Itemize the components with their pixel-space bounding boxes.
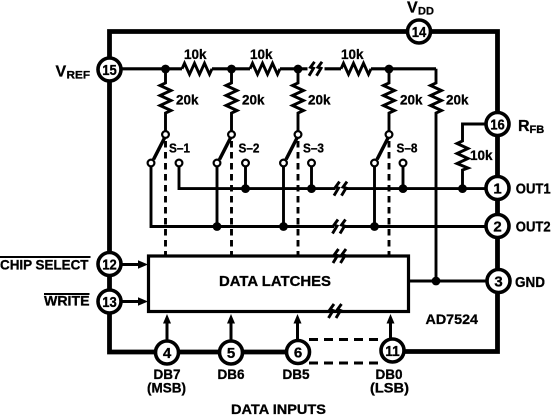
svg-text:5: 5 [227, 345, 235, 362]
switch S-1 [148, 131, 183, 166]
resistor R2 10k (between S-2 and S-3 nodes) [250, 63, 280, 74]
svg-text:10k: 10k [250, 47, 273, 62]
pin 12 (chip select) [98, 253, 121, 276]
pin 16 (RFB) [486, 113, 509, 136]
svg-text:13: 13 [102, 294, 117, 311]
pin 14 (VDD) [408, 20, 431, 43]
node junction dot S-8/OUT1 [399, 184, 408, 193]
svg-text:2: 2 [493, 218, 501, 235]
pin 15 (VREF) [98, 58, 121, 81]
dashed control line S-3 [297, 141, 300, 255]
node junction dot S-8 branch on VREF rail [385, 65, 394, 74]
svg-text:20k: 20k [308, 93, 331, 108]
wire DB7 arrow into latches [166, 322, 169, 340]
wire S-2 contact to OUT2 [216, 167, 219, 227]
break mark on VREF rail [309, 62, 322, 76]
svg-text:S–3: S–3 [303, 141, 324, 156]
svg-text:4: 4 [163, 345, 172, 362]
wire chip outline loop (left, top, right rails and bottom rail ends) [110, 32, 498, 353]
label VREF [56, 64, 91, 82]
svg-text:DATA INPUTS: DATA INPUTS [231, 401, 326, 417]
svg-text:1: 1 [493, 180, 501, 197]
svg-text:DB6: DB6 [217, 367, 244, 382]
wire OUT1 bus [179, 167, 498, 189]
svg-text:S–2: S–2 [239, 141, 260, 156]
pin 1 (OUT1) [486, 177, 509, 200]
resistor 20k branch S-2 [226, 69, 237, 131]
dashed control line S-2 [230, 141, 233, 255]
svg-text:(MSB): (MSB) [147, 381, 186, 396]
svg-text:AD7524: AD7524 [426, 311, 479, 327]
resistor 20k branch S-3 [293, 69, 304, 131]
break mark on OUT1 bus [334, 182, 347, 196]
svg-text:16: 16 [490, 116, 505, 133]
label RFB [518, 118, 544, 136]
node junction dot S-8/OUT2 [370, 222, 379, 231]
wire DB0 arrow into latches [389, 322, 392, 338]
svg-text:DB5: DB5 [282, 367, 309, 382]
node junction dot S-3/OUT1 [307, 184, 316, 193]
wire DB5 arrow into latches [296, 322, 299, 340]
svg-text:OUT1: OUT1 [516, 182, 551, 198]
wire DB6 arrow into latches [230, 322, 233, 340]
node junction dot RFB resistor/OUT1 [458, 184, 467, 193]
svg-text:S–8: S–8 [397, 141, 418, 156]
wire OUT2 bus [151, 167, 498, 227]
svg-text:R: R [518, 118, 530, 135]
dashed omitted-bits line (upper, DB5 to DB0) [309, 338, 381, 341]
node junction dot S-3 branch on VREF rail [294, 65, 303, 74]
node junction dot S-2/OUT2 [213, 222, 222, 231]
svg-text:WRITE: WRITE [44, 294, 90, 309]
svg-text:REF: REF [67, 70, 91, 82]
svg-text:DD: DD [418, 6, 434, 18]
svg-text:14: 14 [412, 24, 427, 41]
wire S-2 contact to OUT1 [244, 167, 247, 189]
pin 2 (OUT2) [486, 215, 509, 238]
svg-text:20k: 20k [242, 93, 265, 108]
svg-text:6: 6 [294, 344, 302, 361]
switch S-3 [280, 131, 315, 166]
resistor R1 10k (between S-1 and S-2 nodes) [182, 63, 212, 74]
pin 13 (write) [98, 290, 121, 313]
node junction dot terminator/GND [432, 277, 441, 286]
resistor R3 10k (before S-8 node) [341, 63, 371, 74]
pin 4 (DB7) [156, 341, 179, 364]
svg-text:12: 12 [102, 256, 117, 273]
resistor 20k ladder terminator [431, 69, 442, 281]
dashed control line S-1 [164, 141, 167, 255]
label DB7 (MSB) [147, 367, 186, 396]
break mark on latches top edge [333, 249, 346, 263]
svg-text:CHIP SELECT: CHIP SELECT [0, 258, 89, 273]
break mark on OUT2 bus [333, 220, 346, 234]
wire S-3 contact to OUT2 [282, 167, 285, 227]
dashed control line S-8 [388, 141, 391, 255]
label DB0 (LSB) [370, 367, 409, 396]
resistor 10k feedback (RFB) [457, 124, 485, 189]
node junction dot S-2/OUT1 [241, 184, 250, 193]
svg-text:20k: 20k [176, 93, 199, 108]
pin 11 (DB0) [381, 339, 404, 362]
wire S-8 contact to OUT1 [402, 167, 405, 189]
label VDD [407, 0, 434, 18]
svg-text:V: V [56, 64, 67, 81]
label CHIP SELECT with overline [0, 257, 91, 273]
node junction dot S-1 branch on VREF rail [161, 65, 170, 74]
switch S-8 [371, 131, 406, 166]
break mark on latches bottom edge [329, 304, 342, 318]
dashed omitted-bits line (lower, DB5 to DB0) [309, 362, 382, 365]
svg-text:(LSB): (LSB) [370, 381, 409, 396]
node junction dot S-2 branch on VREF rail [227, 65, 236, 74]
pin 6 (DB5) [287, 341, 310, 364]
wire S-8 contact to OUT2 [373, 167, 376, 227]
svg-text:GND: GND [515, 275, 545, 291]
resistor 20k branch S-1 [160, 69, 171, 131]
wire write arrow into latches [123, 300, 140, 303]
label WRITE with overline [44, 294, 90, 309]
wire chip-select arrow into latches [123, 263, 140, 266]
resistor 20k branch S-8 [384, 69, 395, 131]
svg-text:10k: 10k [470, 148, 493, 163]
wire S-3 contact to OUT1 [310, 167, 313, 189]
pin 5 (DB6) [220, 341, 243, 364]
svg-text:OUT2: OUT2 [516, 220, 551, 236]
svg-text:20k: 20k [400, 93, 423, 108]
svg-text:10k: 10k [184, 47, 207, 62]
svg-text:10k: 10k [341, 47, 364, 62]
pin 3 (GND) [487, 270, 510, 293]
node junction dot S-3/OUT2 [279, 222, 288, 231]
svg-text:3: 3 [494, 273, 502, 290]
data latches box [149, 256, 409, 312]
wire GND line from latches to pin 3 [409, 280, 498, 283]
svg-text:FB: FB [530, 124, 545, 136]
svg-text:DATA LATCHES: DATA LATCHES [219, 274, 331, 290]
wire VREF ladder rail [123, 67, 437, 70]
svg-text:20k: 20k [446, 93, 469, 108]
switch S-2 [214, 131, 249, 166]
svg-text:15: 15 [102, 62, 117, 79]
svg-text:11: 11 [385, 343, 400, 360]
svg-text:S–1: S–1 [169, 141, 190, 156]
svg-text:V: V [407, 0, 418, 17]
